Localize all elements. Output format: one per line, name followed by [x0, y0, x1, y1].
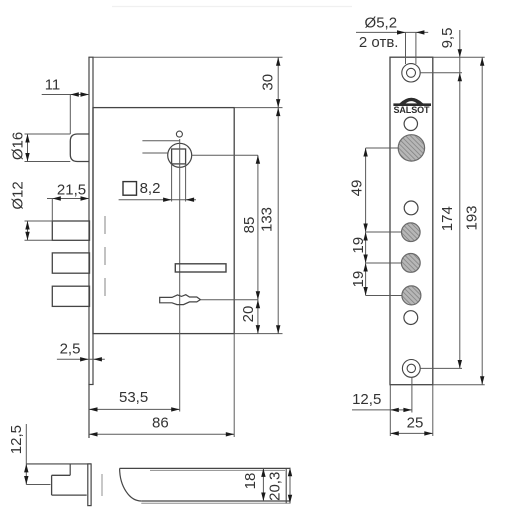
dimension Ø12 line and arrows	[27, 221, 29, 240]
Ø5,2 extension lines down to hole	[405, 32, 407, 64]
hatched hole 2	[402, 223, 421, 242]
faceplate side view (thin vertical strip)	[88, 57, 90, 438]
faceplate top edge extension line to 30-dim	[93, 56, 283, 58]
svg-text:19: 19	[350, 237, 367, 254]
spindle centerline down to 53,5-dim	[179, 164, 181, 412]
svg-text:12,5: 12,5	[8, 425, 25, 454]
svg-text:85: 85	[241, 217, 258, 234]
svg-text:133: 133	[258, 207, 275, 232]
top screw hole	[402, 64, 420, 82]
svg-text:Ø12: Ø12	[10, 181, 27, 209]
dimension 25 (plate width)	[390, 432, 433, 434]
dimension 9,5 / 174 vertical line	[459, 30, 461, 369]
dimension 12,5 (bottom-left)	[25, 424, 27, 485]
dimension 8,2 line and arrows	[119, 199, 196, 201]
svg-text:8,2: 8,2	[140, 180, 161, 197]
dimension 20,3	[289, 468, 291, 503]
spindle crosshair horizontal lower	[142, 152, 167, 154]
svg-text:2,5: 2,5	[60, 341, 81, 358]
svg-text:25: 25	[407, 415, 424, 432]
plate top edge extension	[433, 56, 485, 58]
svg-text:20,3: 20,3	[266, 472, 283, 501]
hatched hole 4	[402, 286, 421, 305]
svg-text:11: 11	[45, 77, 61, 94]
lock case rectangle	[93, 108, 234, 334]
key bit shape	[160, 295, 201, 305]
faint crop artifact line at top	[112, 6, 352, 8]
svg-text:SALSOT: SALSOT	[394, 105, 431, 115]
dimension 11 (latch protrusion)	[42, 94, 89, 96]
svg-text:19: 19	[350, 271, 367, 288]
hatched hole 3	[401, 254, 420, 273]
latch profile: right end cap	[285, 468, 287, 503]
svg-text:Ø5,2: Ø5,2	[365, 15, 398, 32]
bottom view: faceplate bar	[88, 464, 91, 506]
label square-8,2	[123, 182, 137, 196]
svg-text:12,5: 12,5	[352, 391, 381, 408]
spindle follower circle	[168, 143, 192, 167]
dimension Ø16 extension lines	[25, 133, 71, 135]
top hole leader	[420, 72, 462, 74]
dimension Ø16 line and arrows	[27, 134, 29, 162]
lever cutout bar	[175, 264, 226, 272]
svg-text:86: 86	[152, 414, 169, 431]
faceplate front rectangle	[390, 57, 433, 385]
dimension 21,5 (deadbolt throw)	[47, 198, 90, 200]
spindle crosshair vertical	[179, 139, 181, 164]
dimension 2,5 (faceplate thickness)	[57, 358, 105, 360]
lower bolt B	[52, 286, 89, 306]
lower bolt A	[52, 253, 89, 273]
bottom view: deadbolt outline	[52, 474, 71, 476]
dimension Ø12 extension lines	[25, 220, 53, 222]
bottom view: latch tip edge	[69, 464, 71, 475]
svg-text:9,5: 9,5	[439, 28, 456, 49]
svg-text:49: 49	[349, 180, 366, 197]
latch profile: bevel arc	[120, 468, 142, 501]
svg-text:18: 18	[242, 473, 259, 490]
svg-text:2 отв.: 2 отв.	[359, 34, 399, 51]
bottom view: top edge line	[26, 463, 91, 465]
logo arch	[399, 98, 423, 104]
dimension 18	[262, 468, 264, 501]
dimension 12,5 (plate)	[352, 409, 412, 411]
svg-text:21,5: 21,5	[57, 182, 86, 199]
cylinder hole (hatched)	[398, 135, 424, 161]
dimension 8,2 extension lines	[171, 164, 173, 202]
small hole 2	[404, 201, 418, 215]
small pin circle above spindle	[176, 131, 182, 137]
case bottom edge extension	[234, 333, 282, 335]
key bit leader to 20-dim	[200, 299, 258, 301]
small hole 3	[404, 311, 418, 325]
svg-text:174: 174	[439, 206, 456, 231]
plate bottom edge extension	[433, 384, 485, 386]
hole leaders to 49/19/19 dim	[366, 147, 399, 149]
latch profile: bottom edge	[141, 500, 290, 502]
dimension line 85/20	[257, 155, 259, 333]
spindle square hole 8.2	[172, 149, 186, 164]
bottom hole leader	[420, 367, 462, 369]
svg-text:30: 30	[260, 74, 277, 91]
logo bar	[393, 103, 431, 106]
small hole under logo	[404, 117, 417, 130]
case right edge extension down to 86-dim	[233, 334, 235, 437]
svg-text:20: 20	[240, 306, 257, 323]
deadbolt cylinder (Ø12)	[52, 221, 89, 240]
svg-text:53,5: 53,5	[119, 389, 148, 406]
svg-text:193: 193	[464, 205, 481, 230]
dimension 53,5 (backset)	[89, 408, 180, 410]
case top edge extension	[234, 107, 282, 109]
dimension 86 (case width)	[89, 433, 234, 435]
dimension 193 vertical line	[481, 57, 483, 385]
latch profile: top edge	[120, 467, 291, 469]
latch bolt (rounded head)	[70, 134, 89, 162]
bottom screw hole	[402, 360, 420, 378]
hidden dashed line inside case	[104, 216, 106, 300]
dimension line 30/133 (right of case)	[277, 57, 279, 334]
svg-text:Ø16: Ø16	[10, 132, 27, 160]
dimension 49/19/19 vertical line	[365, 148, 367, 296]
spindle crosshair horizontal upper	[142, 140, 179, 142]
bottom view: case edge behind plate	[101, 474, 103, 496]
spindle center leader right to 85-dim	[192, 154, 258, 156]
